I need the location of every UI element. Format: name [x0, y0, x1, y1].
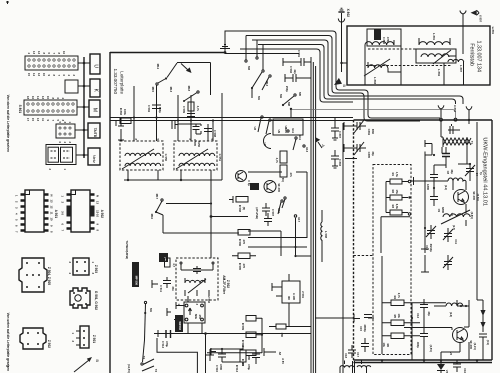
- resistor R814: [280, 165, 293, 178]
- svg-text:A 501: A 501: [54, 210, 58, 219]
- coil L805: [365, 42, 394, 45]
- svg-text:Z 504, Z 505: Z 504, Z 505: [47, 267, 51, 285]
- capacitor C509: [182, 106, 195, 117]
- svg-text:250p: 250p: [285, 86, 289, 92]
- svg-text:15: 15: [31, 118, 35, 121]
- package Z504 Z505: [19, 258, 51, 292]
- capacitor C15 left: [354, 314, 374, 332]
- wires in tuner: [424, 159, 426, 244]
- svg-text:M14: M14: [156, 64, 160, 70]
- capacitor C17: [356, 338, 369, 357]
- svg-text:C 509: C 509: [182, 106, 186, 114]
- connector Z501: [71, 326, 96, 348]
- ferrite rod dashed core: [368, 48, 453, 50]
- svg-text:C 803: C 803: [338, 159, 342, 167]
- coil L801: [419, 42, 450, 45]
- plug label box Netz: [88, 148, 100, 165]
- svg-text:T4: T4: [142, 356, 146, 360]
- svg-text:M18: M18: [187, 86, 191, 92]
- svg-text:C16: C16: [463, 368, 467, 373]
- svg-text:R 508: R 508: [238, 205, 242, 213]
- svg-text:Ferritstab: Ferritstab: [468, 43, 474, 66]
- bottom transformer: [340, 345, 371, 373]
- node dots tuner: [433, 154, 435, 156]
- svg-text:6800: 6800: [441, 207, 445, 213]
- svg-text:12: 12: [37, 73, 41, 76]
- resistor R520: [246, 350, 256, 356]
- wire mid rails: [156, 212, 163, 233]
- capacitor C505 C503 pair: [178, 124, 201, 147]
- svg-text:(L3): (L3): [449, 312, 453, 317]
- switch M18: [183, 86, 199, 102]
- resistor R808: [188, 102, 200, 112]
- tick mark top-left: [6, 1, 9, 4]
- arrow B bottom-left: [74, 357, 100, 372]
- svg-text:C15: C15: [359, 326, 363, 331]
- svg-text:C305: C305: [367, 152, 371, 159]
- svg-text:C 511: C 511: [159, 285, 163, 293]
- switch M4 M5: [279, 92, 302, 106]
- antenna X802: [338, 8, 350, 22]
- capacitor C16: [453, 360, 467, 373]
- svg-text:C 510: C 510: [215, 365, 219, 373]
- coil box L802: [416, 49, 456, 77]
- resistor R506: [238, 230, 250, 247]
- svg-text:AM-ZF-Filter: AM-ZF-Filter: [222, 275, 226, 295]
- node: [340, 62, 342, 64]
- svg-text:Z 501: Z 501: [301, 291, 305, 298]
- svg-text:C 505: C 505: [193, 139, 197, 147]
- wire corner: [157, 338, 197, 373]
- wire drop from node: [205, 333, 207, 373]
- svg-text:SF 235: SF 235: [469, 340, 473, 349]
- svg-text:(6V): (6V): [281, 177, 285, 182]
- capacitor C504: [147, 105, 162, 114]
- svg-text:U13: U13: [305, 147, 309, 152]
- ground bar: [172, 121, 178, 129]
- svg-text:455: 455: [198, 315, 202, 320]
- wire pill rails lower: [382, 256, 391, 354]
- diode V3: [437, 359, 449, 373]
- capacitor C802 block: [367, 29, 401, 46]
- small square block: [65, 80, 78, 93]
- capacitor C9: [430, 190, 445, 213]
- svg-text:A: A: [321, 144, 326, 147]
- svg-text:R5: R5: [393, 315, 397, 319]
- svg-text:C8: C8: [446, 171, 450, 175]
- svg-text:U15: U15: [277, 208, 281, 213]
- svg-text:470µ: 470µ: [247, 364, 251, 370]
- svg-text:R1: R1: [391, 173, 395, 177]
- svg-text:L 803: L 803: [373, 77, 377, 84]
- svg-text:(2,8V): (2,8V): [470, 212, 474, 219]
- svg-text:WF502: WF502: [178, 321, 182, 330]
- Ferritstab box: [347, 26, 490, 85]
- svg-text:(14,5V): (14,5V): [127, 364, 131, 373]
- svg-text:L 508: L 508: [324, 231, 328, 238]
- svg-text:A 502: A 502: [100, 210, 104, 219]
- transistor V501: [264, 177, 285, 193]
- svg-text:(ATU/VB): (ATU/VB): [255, 207, 259, 219]
- switch M13 M3: [247, 45, 269, 99]
- svg-text:3/60: 3/60: [371, 129, 375, 135]
- svg-text:(2,1V): (2,1V): [473, 343, 477, 350]
- wire long vertical: [342, 123, 344, 373]
- svg-text:C10: C10: [425, 245, 429, 250]
- svg-text:U11: U11: [298, 135, 302, 140]
- ground caps rail: [421, 243, 429, 253]
- transistor stage small: [236, 171, 252, 187]
- svg-text:M17: M17: [155, 194, 159, 200]
- resistor R3: [390, 204, 402, 215]
- svg-text:M15: M15: [151, 87, 155, 93]
- switch M16 lever: [143, 301, 154, 362]
- svg-text:C 802: C 802: [382, 37, 386, 45]
- svg-text:U10: U10: [284, 128, 288, 133]
- resistor R512: [235, 350, 251, 373]
- wire U17 drop: [296, 218, 312, 256]
- svg-text:C 501: C 501: [297, 50, 301, 58]
- trimmer C11: [443, 228, 458, 245]
- junction nodes bottom rail: [440, 359, 442, 361]
- wire riser to G551: [210, 63, 212, 96]
- connector header row 2: [18, 96, 77, 122]
- wire long rails: [110, 117, 353, 119]
- wire bus to plug symbols: [83, 57, 85, 158]
- svg-text:L 804: L 804: [437, 69, 441, 76]
- svg-text:Z 502: Z 502: [226, 280, 230, 288]
- svg-text:C9: C9: [437, 209, 441, 213]
- svg-text:Z 503: Z 503: [94, 265, 98, 273]
- svg-text:S 801: S 801: [18, 105, 22, 114]
- svg-text:R2: R2: [391, 190, 395, 194]
- switch U3: [253, 116, 263, 132]
- svg-text:400p: 400p: [416, 342, 420, 348]
- resistor R6: [382, 333, 404, 348]
- svg-text:12: 12: [37, 51, 41, 54]
- svg-text:B: B: [95, 359, 100, 362]
- svg-text:(C1): (C1): [486, 340, 490, 345]
- ground bars T1 left: [425, 140, 432, 147]
- capacitor C519 electrolytic: [247, 350, 260, 370]
- capacitor C807: [331, 118, 339, 141]
- box G803: [273, 119, 303, 135]
- svg-text:2,7k: 2,7k: [397, 293, 401, 299]
- plug label box U: [90, 54, 100, 74]
- svg-text:R 512: R 512: [235, 365, 239, 373]
- resistor R4: [391, 293, 404, 306]
- svg-text:680: 680: [247, 356, 251, 361]
- svg-text:U9: U9: [277, 130, 281, 134]
- pin circle mid: [454, 118, 457, 121]
- ground bar: [152, 280, 158, 288]
- svg-text:Z 502: Z 502: [207, 296, 211, 303]
- wire pills column: [256, 318, 262, 353]
- svg-text:47k: 47k: [289, 173, 293, 178]
- UKW-Eingangsteil box: [354, 120, 493, 360]
- svg-text:G 501, G 502: G 501, G 502: [94, 291, 98, 310]
- wire right rails: [321, 210, 323, 262]
- switch U11: [295, 137, 297, 139]
- svg-text:U: U: [93, 64, 99, 68]
- package Z503: [68, 258, 98, 275]
- capacitor C508: [204, 129, 217, 138]
- svg-text:13: 13: [36, 118, 40, 121]
- wire y318: [315, 317, 354, 319]
- svg-text:470: 470: [242, 264, 246, 269]
- svg-text:C 507: C 507: [271, 209, 275, 217]
- svg-text:L 801: L 801: [432, 33, 436, 40]
- svg-text:10k: 10k: [382, 343, 386, 348]
- IC package A502: [61, 190, 104, 232]
- svg-text:12: 12: [41, 96, 45, 99]
- svg-text:14: 14: [32, 73, 36, 76]
- svg-text:U3: U3: [253, 127, 257, 131]
- svg-text:SF 235: SF 235: [472, 191, 476, 200]
- svg-text:C 512: C 512: [161, 341, 165, 349]
- frame left border: [109, 52, 111, 373]
- switch U16 U17: [282, 197, 301, 223]
- antenna X804 right: [453, 105, 472, 121]
- svg-text:40p: 40p: [427, 311, 431, 316]
- ground bar right: [211, 348, 216, 355]
- svg-text:U11: U11: [291, 128, 295, 133]
- switch T4 T6: [127, 356, 158, 373]
- wire C501 rail: [225, 53, 299, 55]
- svg-text:R3: R3: [391, 205, 395, 209]
- capacitor C507: [262, 203, 270, 216]
- svg-text:TA/TB/U(UKW): TA/TB/U(UKW): [125, 240, 129, 259]
- svg-text:Z 501: Z 501: [92, 335, 96, 343]
- svg-text:SF 235: SF 235: [277, 183, 281, 192]
- svg-text:M3: M3: [247, 66, 251, 70]
- trimmer C4: [465, 164, 483, 178]
- switch U13: [303, 145, 305, 147]
- svg-text:(L1): (L1): [444, 185, 448, 190]
- resistor R519: [269, 324, 311, 338]
- switch U15: [277, 200, 283, 214]
- capacitor C501: [283, 50, 311, 75]
- switch M1: [257, 75, 271, 101]
- test point MP507: [159, 253, 168, 262]
- svg-text:(4,5V): (4,5V): [429, 345, 433, 352]
- svg-text:X 807: X 807: [479, 15, 483, 23]
- capacitor C14: [416, 328, 428, 348]
- svg-text:R 509: R 509: [241, 323, 245, 331]
- coil L803 variable: [364, 59, 390, 85]
- svg-text:C 502: C 502: [289, 66, 293, 74]
- test point WF502: [175, 315, 183, 332]
- svg-text:1,5k: 1,5k: [395, 172, 399, 178]
- svg-text:C 508: C 508: [213, 130, 217, 138]
- svg-text:Von oben auf die Leiterplatte: Von oben auf die Leiterplatte gesehen: [6, 95, 10, 152]
- svg-text:C12: C12: [416, 313, 420, 318]
- wire risers: [134, 85, 213, 141]
- svg-text:R4: R4: [393, 296, 397, 300]
- svg-text:M: M: [92, 108, 98, 112]
- svg-text:X 804: X 804: [453, 105, 457, 113]
- test point MP508: [132, 262, 139, 287]
- plug label box K: [90, 79, 100, 97]
- svg-text:30p: 30p: [371, 151, 375, 156]
- svg-text:M4: M4: [279, 94, 283, 98]
- ground bars left of box: [344, 122, 354, 130]
- svg-text:T1: T1: [470, 141, 474, 145]
- wire transformer bottoms: [128, 170, 211, 180]
- resistor R507: [165, 258, 177, 267]
- svg-text:10: 10: [42, 73, 46, 76]
- svg-text:16: 16: [62, 51, 66, 54]
- svg-text:4000p: 4000p: [363, 324, 367, 332]
- svg-text:Von unten auf die Leiterplatte: Von unten auf die Leiterplatte gesehen: [6, 313, 10, 371]
- dashed sub-box: [373, 165, 411, 355]
- svg-text:Z 502: Z 502: [47, 340, 51, 348]
- svg-text:C 807: C 807: [338, 131, 342, 139]
- small connector 3x2: [56, 122, 75, 144]
- label Leiterplatte 1.33.007750: [113, 68, 124, 94]
- svg-text:Netz: Netz: [92, 155, 97, 163]
- svg-text:R 802: R 802: [119, 108, 123, 116]
- svg-text:C11: C11: [454, 239, 458, 244]
- svg-text:33n: 33n: [171, 286, 175, 291]
- svg-text:R 505: R 505: [238, 263, 242, 271]
- svg-text:R6: R6: [386, 344, 390, 348]
- svg-text:M16: M16: [150, 214, 154, 220]
- coil L1: [448, 178, 466, 181]
- wire riser: [225, 31, 240, 53]
- resistor R2: [390, 190, 402, 200]
- svg-text:R 506: R 506: [238, 239, 242, 247]
- svg-text:C17: C17: [356, 352, 360, 357]
- capacitor C8: [442, 147, 454, 175]
- coil L3: [446, 303, 463, 306]
- svg-text:30/10p: 30/10p: [429, 244, 433, 253]
- capacitor C518: [264, 213, 272, 226]
- svg-text:9F/: 9F/: [287, 296, 291, 300]
- wire riser M2: [256, 40, 258, 57]
- svg-text:M1: M1: [149, 308, 153, 312]
- svg-text:C 504: C 504: [147, 105, 151, 113]
- svg-text:SFE: SFE: [194, 314, 198, 319]
- svg-text:360p: 360p: [158, 107, 162, 113]
- plug label box M: [89, 100, 100, 117]
- switch M17 M16: [150, 194, 163, 220]
- svg-text:3150: 3150: [197, 141, 201, 147]
- resistor R510: [246, 332, 256, 338]
- svg-text:C304: C304: [367, 129, 371, 136]
- svg-text:7p: 7p: [479, 172, 483, 175]
- svg-text:12: 12: [50, 206, 54, 209]
- capacitor rail taps: [118, 118, 124, 141]
- svg-text:TA/TB: TA/TB: [93, 128, 97, 138]
- amplifier block outline: [248, 172, 307, 238]
- wire coil taps: [365, 26, 464, 86]
- mains connector: [46, 145, 76, 171]
- package Z502: [20, 328, 51, 349]
- svg-text:(5): (5): [242, 207, 246, 210]
- svg-text:16: 16: [31, 96, 35, 99]
- capacitor C12: [416, 299, 431, 318]
- coil L508: [321, 222, 328, 240]
- IF transformer G550: [120, 139, 168, 171]
- IC package A501: [15, 190, 58, 233]
- svg-text:4700: 4700: [219, 364, 223, 370]
- resistor R5: [391, 314, 404, 326]
- wire antenna drop: [342, 23, 348, 64]
- resistor R509: [246, 316, 256, 322]
- ground: [220, 45, 230, 53]
- svg-text:Leiterplatte: Leiterplatte: [119, 71, 124, 94]
- svg-text:46p: 46p: [450, 169, 454, 174]
- ferrite rod dashed core 2: [366, 65, 452, 67]
- svg-text:180: 180: [280, 333, 284, 338]
- svg-text:6,8k: 6,8k: [395, 204, 399, 210]
- svg-text:X 802: X 802: [346, 9, 350, 18]
- svg-text:18: 18: [26, 96, 30, 99]
- svg-text:L 807: L 807: [459, 65, 463, 72]
- wire bundle to tuner: [240, 31, 440, 118]
- coil L807: [448, 59, 464, 72]
- wire lower rail: [248, 231, 281, 256]
- transistor V1: [450, 190, 480, 220]
- wire mid link: [248, 246, 307, 248]
- coil L2 variable: [441, 210, 470, 230]
- ground bar: [206, 349, 214, 361]
- main vertical bus: [310, 57, 312, 373]
- svg-text:14: 14: [36, 96, 40, 99]
- svg-text:470: 470: [242, 240, 246, 245]
- wire bottom rail: [154, 333, 311, 335]
- svg-text:10k: 10k: [397, 314, 401, 319]
- svg-text:T2: T2: [154, 369, 158, 373]
- switch U7: [263, 119, 271, 147]
- svg-text:4,7k: 4,7k: [196, 106, 200, 112]
- module Z501: [272, 274, 305, 327]
- capacitor C803: [331, 150, 339, 168]
- svg-text:1800: 1800: [426, 184, 430, 190]
- connector S801 header row 1: [25, 51, 78, 77]
- svg-text:C18: C18: [344, 353, 348, 358]
- svg-text:13: 13: [32, 51, 36, 54]
- svg-text:470µ: 470µ: [165, 341, 169, 347]
- svg-text:100k: 100k: [123, 109, 127, 115]
- resistor R1: [390, 172, 402, 184]
- svg-text:13: 13: [50, 200, 54, 203]
- arrow B to tuner: [334, 63, 347, 87]
- svg-text:3-5: 3-5: [61, 211, 65, 215]
- svg-text:N: N: [96, 195, 100, 197]
- tick mark left: [6, 365, 9, 367]
- wire bridge: [264, 134, 272, 149]
- IF transformer G551: [174, 139, 222, 171]
- svg-text:1.33.007 134: 1.33.007 134: [475, 41, 481, 72]
- capacitor C502: [285, 66, 311, 93]
- svg-text:12-10: 12-10: [96, 210, 100, 217]
- wire tuner right rail: [477, 122, 483, 300]
- svg-text:17: 17: [26, 118, 30, 121]
- svg-text:A 190: A 190: [292, 293, 296, 301]
- svg-text:N: N: [50, 195, 54, 197]
- node junction: [224, 51, 227, 54]
- svg-text:G 550: G 550: [164, 154, 168, 162]
- test point MP505: [250, 183, 259, 190]
- tuning arrows: [479, 300, 490, 348]
- svg-text:A 8V: A 8V: [281, 358, 285, 364]
- wire bottom links: [210, 345, 243, 366]
- svg-text:w 801: w 801: [491, 26, 495, 35]
- capacitor C512 electrolytic: [154, 330, 171, 349]
- wire stub: [264, 348, 276, 356]
